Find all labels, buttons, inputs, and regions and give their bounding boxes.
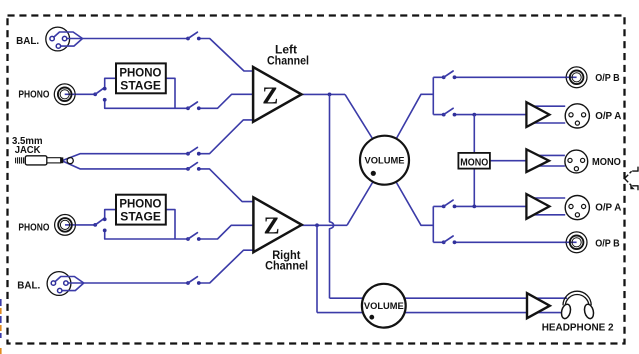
node left amp output junction	[328, 93, 332, 97]
wire volume lower output to switch column	[395, 180, 433, 225]
svg-text:VOLUME: VOLUME	[365, 156, 405, 167]
switch S4 jack left channel	[186, 147, 201, 155]
switch S8 balanced bottom	[186, 277, 201, 285]
wire top switch column	[432, 77, 434, 114]
connector XLR balanced input bottom (BAL.)	[47, 272, 84, 296]
node right amp output junction	[315, 223, 319, 227]
buffer amp O/P A top	[526, 102, 549, 127]
wire headphone lower line (right ch) to headphone	[317, 312, 564, 314]
external link mark right edge	[625, 167, 639, 191]
connector 3.5mm jack plug	[16, 156, 74, 165]
wire phono 2 bypass	[105, 230, 188, 239]
switch S2 phono top input selector	[93, 87, 106, 102]
connector RCA phono input bottom	[55, 215, 76, 236]
wire left amp output into volume	[345, 94, 374, 141]
switch S11 O/P A bottom	[442, 200, 457, 208]
wire headphone upper line (left ch) to headphone	[330, 297, 568, 299]
svg-text:Z: Z	[262, 83, 278, 109]
buffer amp mono	[526, 149, 549, 172]
wire selector to phono stage 1 input	[105, 78, 116, 88]
wire O/P A top balanced pair	[531, 106, 565, 123]
wire left amp output	[301, 93, 346, 95]
connector headphone 2 icon	[560, 291, 595, 319]
label PHONO STAGE bottom	[119, 199, 161, 224]
connector RCA phono input top	[54, 84, 75, 105]
svg-text:JACK: JACK	[15, 145, 42, 156]
wire volume upper output to switch column	[395, 94, 433, 141]
wire mono box output	[490, 160, 527, 162]
wire jack lower to right amp input 1	[199, 169, 254, 202]
switch S9 O/P B top	[442, 71, 457, 79]
svg-text:VOLUME: VOLUME	[364, 301, 404, 312]
switch S12 O/P B bottom	[442, 236, 457, 244]
svg-text:O/P B: O/P B	[595, 72, 620, 84]
svg-text:BAL.: BAL.	[16, 36, 39, 47]
wire BAL top switch to left amp input 1	[199, 39, 254, 72]
connector XLR output O/P A top	[565, 104, 589, 128]
wire phono stage 2 output drop	[166, 210, 175, 239]
node O/P A top junction	[472, 113, 476, 117]
wire bottom switch column	[432, 206, 434, 242]
switch S5 jack right channel	[186, 163, 201, 171]
switch S6 phono bottom input selector	[93, 217, 106, 232]
wire mono output pair	[536, 155, 565, 166]
wire mono column upper	[473, 115, 475, 153]
svg-text:O/P A: O/P A	[595, 110, 622, 122]
svg-text:MONO: MONO	[592, 156, 621, 168]
svg-text:HEADPHONE 2: HEADPHONE 2	[542, 322, 614, 333]
wire O/P B bottom row	[433, 241, 576, 243]
wire 3.5mm jack tip to lower switch	[63, 161, 189, 169]
svg-text:STAGE: STAGE	[120, 212, 161, 224]
wire PHONO bottom RCA to selector pole	[65, 224, 95, 226]
wire right amp output into volume	[347, 180, 374, 225]
op-amp left channel (Z)	[253, 67, 301, 122]
svg-text:Channel: Channel	[265, 261, 308, 273]
svg-text:O/P B: O/P B	[595, 238, 620, 250]
label PHONO STAGE top	[119, 67, 161, 92]
wire BAL input top to switch	[83, 38, 189, 40]
svg-text:PHONO: PHONO	[119, 199, 161, 211]
wire 3.5mm jack tip to upper switch	[63, 154, 189, 161]
buffer amp O/P A bottom	[526, 194, 549, 219]
wire right amp output	[301, 224, 347, 226]
label Left Channel	[267, 45, 309, 68]
switch S7 phono bottom	[186, 233, 201, 241]
wire right channel drop to headphone volume	[316, 225, 318, 312]
wire BAL bottom switch to right amp input 3	[199, 250, 254, 283]
wire PHONO top RCA to selector pole	[65, 93, 96, 95]
buffer amp headphone	[527, 293, 550, 318]
block phono stage top	[116, 63, 166, 93]
wire selector to phono stage 2 input	[105, 210, 116, 220]
svg-text:BAL.: BAL.	[17, 280, 40, 291]
connector RCA output O/P B bottom	[566, 232, 587, 253]
svg-text:Channel: Channel	[267, 56, 309, 68]
switch S3 phono top	[186, 102, 201, 110]
wire O/P A bottom row	[433, 205, 526, 207]
connector XLR balanced input top (BAL.)	[46, 27, 83, 51]
wire O/P A bottom balanced pair	[531, 198, 565, 215]
connector XLR output O/P A bottom	[565, 196, 589, 220]
svg-text:MONO: MONO	[460, 156, 488, 168]
page margin colour marks left edge	[0, 299, 2, 354]
op-amp right channel (Z)	[253, 197, 301, 252]
svg-text:STAGE: STAGE	[120, 80, 161, 92]
svg-text:PHONO: PHONO	[119, 67, 161, 79]
block mono sum	[458, 153, 490, 169]
block phono stage bottom	[116, 195, 166, 225]
wire O/P B top row	[433, 76, 576, 78]
node O/P A bottom junction	[472, 205, 476, 209]
wire phono 1 to left amp input 2	[199, 94, 254, 108]
wire mono column lower	[473, 169, 475, 207]
volume control headphone	[362, 284, 406, 328]
svg-text:O/P A: O/P A	[595, 202, 622, 214]
connector RCA output O/P B top	[566, 67, 587, 88]
wire BAL input bottom to switch	[84, 282, 188, 284]
switch S10 O/P A top	[442, 108, 457, 116]
wire phono 2 to right amp input 2	[199, 225, 254, 239]
wire O/P A top row	[433, 114, 526, 116]
wire jack upper to left amp input 3	[199, 120, 254, 154]
label Right Channel	[265, 250, 308, 273]
wire phono stage 1 output drop	[166, 78, 175, 108]
connector XLR output MONO	[565, 150, 588, 173]
svg-text:PHONO: PHONO	[18, 90, 49, 101]
wire left channel drop to headphone volume (with hop over right channel)	[330, 94, 334, 298]
switch S1 balanced top	[186, 32, 201, 40]
volume control main	[360, 136, 409, 185]
svg-text:Z: Z	[264, 213, 280, 239]
svg-text:PHONO: PHONO	[18, 222, 49, 233]
wire phono 1 bypass	[105, 100, 188, 109]
